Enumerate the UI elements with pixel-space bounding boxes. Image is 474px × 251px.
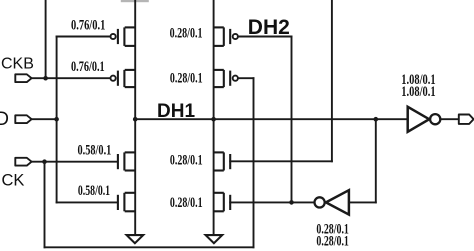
svg-text:0.76/0.1: 0.76/0.1 — [71, 18, 105, 34]
svg-text:0.28/0.1: 0.28/0.1 — [170, 26, 203, 42]
svg-text:CK: CK — [2, 171, 25, 189]
svg-text:1.08/0.1: 1.08/0.1 — [401, 84, 435, 100]
svg-text:DH2: DH2 — [248, 16, 290, 39]
svg-text:0.28/0.1: 0.28/0.1 — [316, 233, 349, 249]
svg-text:0.58/0.1: 0.58/0.1 — [78, 143, 112, 159]
svg-text:0.28/0.1: 0.28/0.1 — [170, 153, 203, 169]
svg-text:CKB: CKB — [1, 55, 34, 72]
svg-text:DH1: DH1 — [157, 101, 195, 122]
svg-text:0.76/0.1: 0.76/0.1 — [71, 59, 105, 75]
svg-text:D: D — [0, 109, 9, 130]
svg-text:0.58/0.1: 0.58/0.1 — [78, 183, 110, 199]
svg-text:0.28/0.1: 0.28/0.1 — [170, 70, 203, 86]
svg-text:0.28/0.1: 0.28/0.1 — [170, 195, 203, 211]
